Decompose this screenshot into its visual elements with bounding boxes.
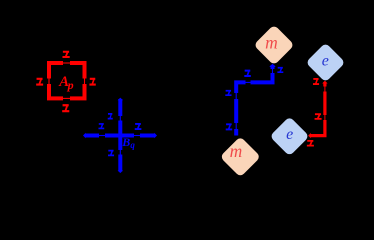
svg-text:m: m — [265, 33, 278, 53]
svg-text:m: m — [230, 141, 243, 161]
svg-text:e: e — [322, 53, 329, 70]
svg-text:e: e — [286, 126, 293, 143]
